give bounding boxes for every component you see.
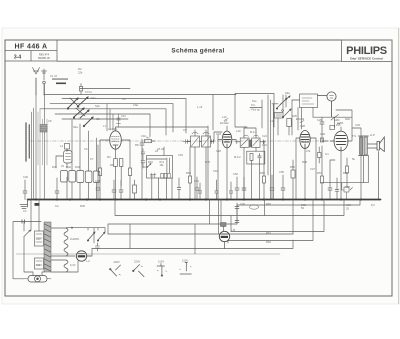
svg-text:C29: C29 [317, 118, 322, 122]
svg-text:S1a: S1a [91, 96, 96, 100]
resistor R7 [128, 168, 131, 176]
capacitor C46 [112, 180, 116, 200]
wire V2 leads [218, 126, 236, 200]
capacitor C14a [150, 173, 153, 178]
svg-text:0,1: 0,1 [325, 152, 329, 156]
capacitor C45 [96, 145, 100, 200]
switch S-volt 2 [97, 232, 105, 241]
capacitor C57 [335, 178, 339, 200]
label V3 [300, 121, 304, 123]
wire return 1 [237, 200, 360, 225]
svg-text:L.B: L.B [231, 228, 235, 232]
capacitor C56 [281, 175, 285, 200]
resistor R50 [189, 147, 192, 200]
svg-text:8,2: 8,2 [371, 203, 375, 207]
switch icon S2 [133, 265, 144, 277]
svg-text:R6: R6 [110, 163, 114, 167]
wire voltage selector [88, 228, 105, 256]
svg-text:C56: C56 [279, 170, 284, 174]
capacitor C11 stack [117, 114, 121, 127]
tube V1 UCH42 [110, 131, 122, 149]
text pick-up note [248, 99, 261, 111]
svg-text:C18: C18 [216, 149, 221, 153]
wire return 6 [92, 240, 293, 249]
svg-text:R8: R8 [135, 143, 139, 147]
svg-text:110V: 110V [158, 259, 164, 263]
label V4 [337, 123, 341, 125]
capacitor C21 lead [260, 140, 266, 144]
coupling core [249, 140, 252, 148]
svg-text:R56: R56 [290, 165, 295, 169]
capacitor C17 [211, 140, 214, 144]
resistor R6b [120, 159, 123, 167]
coil can L4 [64, 151, 73, 164]
wire AVC leads [252, 161, 260, 200]
schematic frame [5, 40, 392, 296]
tiny value labels [23, 67, 375, 267]
band switch S-a cluster [67, 97, 93, 127]
capacitor C50 [177, 178, 181, 200]
coil can L5 [61, 171, 68, 183]
svg-text:C6: C6 [84, 147, 88, 151]
svg-text:C33: C33 [355, 123, 360, 127]
svg-text:2x300V: 2x300V [70, 237, 79, 241]
ballast lamp L2 [76, 251, 92, 261]
svg-text:R32: R32 [345, 117, 350, 121]
coil can L6 [69, 120, 76, 200]
resistor R3 [65, 144, 70, 152]
svg-text:C9a: C9a [133, 103, 138, 107]
wire left verticals comb [32, 78, 45, 200]
wire T2 leads [352, 128, 377, 200]
svg-text:C3 1n: C3 1n [85, 90, 93, 94]
antenna A1 [33, 68, 40, 96]
svg-text:C66: C66 [346, 203, 351, 207]
svg-text:C11: C11 [121, 114, 126, 118]
svg-text:L5: L5 [61, 164, 64, 168]
transformer LT secondary [64, 260, 68, 272]
magic eye lamp L3 [318, 92, 337, 117]
capacitor C64 [229, 182, 232, 200]
svg-text:L7: L7 [103, 124, 106, 128]
switch arrow S2b [147, 164, 151, 168]
capacitor C61 [235, 217, 239, 223]
tube V2 ECH42 [222, 131, 232, 148]
svg-text:R54: R54 [260, 171, 265, 175]
chassis dashed line [30, 140, 335, 142]
capacitor C30 [320, 117, 324, 131]
wire IF1 leads [244, 128, 256, 200]
svg-text:L.13: L.13 [197, 105, 203, 109]
coil L12 osc [275, 113, 284, 119]
svg-text:M.F.2: M.F.2 [234, 155, 241, 159]
capacitor C62 [198, 183, 201, 200]
wire V3 leads [296, 138, 316, 200]
node junction J3 [313, 115, 352, 128]
svg-text:C60: C60 [240, 202, 245, 206]
svg-text:R10: R10 [148, 160, 153, 164]
wire return faint [16, 253, 280, 255]
wire return 5 [292, 200, 294, 235]
wire heater drops [130, 200, 265, 255]
svg-text:L.2: L.2 [86, 259, 90, 263]
svg-text:R41: R41 [52, 165, 57, 169]
wire osc internals [147, 147, 170, 173]
svg-text:C57: C57 [345, 185, 350, 189]
wire return 4 [228, 200, 313, 244]
wire osc loop box [235, 94, 274, 128]
svg-text:6,3V: 6,3V [70, 263, 76, 267]
svg-text:Schéma général: Schéma général [171, 48, 224, 55]
svg-text:ECH42: ECH42 [220, 121, 229, 125]
svg-text:C30: C30 [320, 132, 325, 136]
wire header rule [57, 60, 342, 62]
svg-text:EL41: EL41 [337, 121, 344, 125]
svg-text:R43: R43 [75, 165, 80, 169]
svg-text:C18: C18 [216, 132, 221, 136]
capacitor C51 [195, 177, 199, 200]
svg-text:S3a: S3a [285, 91, 290, 95]
resistor R54 [263, 141, 266, 200]
svg-text:C40: C40 [23, 175, 28, 179]
resistor R28 [318, 153, 322, 158]
pick-up box [300, 94, 318, 108]
wire to bus [100, 167, 130, 200]
svg-text:Pos.: Pos. [252, 99, 257, 103]
earth terminal E1 [42, 69, 47, 95]
AVC block box [247, 151, 265, 164]
capacitor C53 [242, 177, 246, 200]
band switch S-d cluster [276, 96, 291, 118]
svg-text:220V: 220V [134, 260, 140, 264]
transformer primary winding [35, 231, 44, 246]
wire osc box leads [152, 178, 172, 200]
svg-text:L4: L4 [60, 144, 63, 148]
switch icon S3 [157, 264, 167, 277]
switch S-volt 1 [87, 232, 95, 241]
resistor R2 top [79, 84, 82, 95]
svg-text:110V: 110V [182, 259, 188, 263]
coil L1 aerial [40, 125, 47, 133]
coil can L7c [85, 131, 92, 200]
svg-text:UCH42: UCH42 [108, 127, 117, 131]
svg-text:R60: R60 [266, 202, 271, 206]
svg-text:M.F.1: M.F.1 [250, 130, 257, 134]
tuning gang CV1 [186, 133, 202, 148]
resistor R56 [291, 160, 295, 200]
switch icon S4 [180, 262, 192, 274]
resistor R9 [145, 140, 156, 143]
wire V1 leads [100, 127, 208, 168]
power transformer T3 core [44, 222, 51, 272]
resistor R20 [250, 154, 253, 161]
svg-text:C51: C51 [194, 179, 199, 183]
svg-text:R28: R28 [302, 160, 307, 164]
label oval [250, 205, 259, 209]
svg-text:220: 220 [36, 237, 41, 241]
svg-text:C15: C15 [178, 153, 183, 157]
ground bus [28, 199, 381, 201]
switch S-mains [24, 222, 31, 237]
wire osc section [250, 95, 292, 200]
resistor R47 [133, 180, 137, 200]
resistor R59 [346, 158, 349, 187]
wire coupling [322, 131, 328, 141]
loudspeaker LS [377, 137, 384, 200]
resistor R33 [330, 126, 334, 130]
label antenna-earth [52, 79, 68, 85]
svg-text:CV: CV [183, 128, 187, 132]
svg-text:L12: L12 [270, 119, 275, 123]
svg-text:T.S.: T.S. [352, 134, 357, 138]
switch icon S1 [110, 265, 121, 276]
wire gang leads [195, 130, 222, 200]
wire mains top [13, 222, 41, 279]
svg-text:R48: R48 [143, 165, 148, 169]
capacitor C-f1 [95, 246, 99, 251]
svg-text:L8 L9: L8 L9 [157, 147, 164, 151]
svg-text:C21: C21 [262, 143, 267, 147]
svg-text:R59: R59 [343, 171, 348, 175]
svg-text:C1 47: C1 47 [50, 74, 58, 78]
svg-text:C19: C19 [213, 169, 218, 173]
svg-text:PHILIPS: PHILIPS [346, 45, 387, 57]
svg-text:25: 25 [346, 207, 349, 211]
svg-text:C45: C45 [95, 179, 100, 183]
wire return 3 [231, 200, 324, 232]
svg-text:P.U.: P.U. [251, 103, 256, 107]
svg-text:C7: C7 [90, 157, 94, 161]
label V2 [224, 119, 228, 122]
output transformer T2 [359, 136, 369, 156]
transformer HT secondary [64, 228, 68, 256]
IF transformer T1 secondary [252, 135, 260, 147]
svg-text:R57: R57 [317, 171, 322, 175]
capacitor C60 [235, 203, 239, 215]
svg-text:C5: C5 [48, 119, 52, 123]
capacitor C58 [328, 160, 335, 200]
svg-text:H.P.: H.P. [370, 133, 375, 137]
svg-text:22k: 22k [78, 71, 83, 75]
capacitor C10 [140, 139, 144, 200]
capacitor C14b [154, 173, 156, 178]
svg-text:R61: R61 [266, 231, 271, 235]
wire return 2 [115, 200, 344, 232]
IF transformer T1 primary [240, 135, 249, 147]
svg-text:R42: R42 [66, 165, 71, 169]
svg-text:R25: R25 [292, 114, 297, 118]
svg-text:S1b: S1b [95, 104, 100, 108]
ground tag left [20, 200, 40, 209]
resistor R6 [114, 159, 118, 167]
svg-text:S2a: S2a [73, 125, 78, 129]
wire heater line 2 [108, 233, 293, 235]
svg-text:Ch: Ch [23, 209, 27, 213]
wire bundle drops to V1 [107, 104, 113, 131]
tube V4 EL41 [334, 131, 348, 151]
tone cap C39 [342, 183, 353, 200]
capacitor C22 [258, 154, 261, 165]
svg-text:R2: R2 [78, 67, 82, 71]
resistor R57 [321, 146, 324, 200]
wire secondary leads [51, 228, 105, 272]
wire PU leads [292, 100, 313, 130]
svg-text:220V: 220V [114, 260, 120, 264]
capacitor C55 [270, 175, 274, 200]
wire transformer feeds [24, 200, 44, 276]
wire heater line 1 [108, 224, 237, 234]
resistor R25 [287, 119, 292, 127]
trimmer boxes [161, 173, 170, 178]
tube V3 EAF42 [300, 131, 310, 149]
svg-text:BF/RB.JD: BF/RB.JD [38, 56, 50, 60]
svg-text:R4: R4 [107, 155, 111, 159]
svg-text:47k: 47k [306, 149, 311, 153]
label block R12 [160, 161, 165, 167]
svg-text:110: 110 [36, 263, 41, 267]
vertical legend text bar [26, 123, 29, 161]
capacitor C41 [55, 178, 59, 200]
wire bundle RF nested horizontals [80, 88, 130, 90]
svg-text:R50: R50 [186, 171, 191, 175]
svg-text:R15: R15 [205, 160, 210, 164]
resistor R5 [99, 168, 102, 176]
wire V4 leads [330, 110, 352, 200]
svg-text:Dép' SERVICE Central: Dép' SERVICE Central [350, 56, 383, 60]
svg-text:C8: C8 [96, 117, 100, 121]
wire coil links [56, 149, 67, 200]
capacitor C-mains [22, 220, 25, 223]
capacitor C40 [23, 180, 27, 200]
capacitor C47 [119, 180, 123, 200]
svg-text:HF 446 A: HF 446 A [15, 43, 48, 50]
capacitor C52 [235, 177, 239, 200]
svg-text:C52: C52 [233, 172, 238, 176]
wire V3V4 couple [318, 147, 320, 163]
svg-text:50: 50 [301, 206, 304, 210]
coil can L7d [93, 138, 100, 200]
svg-text:C27: C27 [310, 167, 315, 171]
svg-text:L13: L13 [222, 115, 227, 119]
svg-text:C4: C4 [55, 204, 59, 208]
svg-text:C28: C28 [300, 124, 305, 128]
transformer primary winding 2 [35, 258, 44, 269]
PHILIPS service box [342, 40, 393, 62]
svg-text:R40: R40 [80, 204, 85, 208]
svg-text:L10: L10 [236, 129, 241, 133]
wire T2 return [321, 156, 369, 183]
oscillator block box [147, 156, 173, 179]
svg-text:EAF42: EAF42 [296, 117, 305, 121]
svg-text:R62: R62 [266, 240, 271, 244]
capacitor C20 lead [236, 140, 241, 144]
svg-text:→ Pick-up: → Pick-up [248, 107, 261, 111]
junction dot [71, 227, 73, 229]
wire osc verticals [208, 95, 218, 200]
capacitor C16 [183, 140, 191, 144]
resistor R31 [320, 138, 323, 142]
tuning gang CV2 [202, 133, 215, 148]
svg-text:4n7: 4n7 [146, 136, 151, 140]
bus junctions [35, 198, 362, 200]
svg-text:C9: C9 [122, 97, 126, 101]
capacitor C13 stack [141, 149, 145, 169]
mains plug P1 [24, 276, 51, 283]
fuse holder box [221, 223, 227, 232]
capacitor C63 [215, 180, 218, 200]
title block [5, 40, 57, 61]
svg-text:C21: C21 [262, 134, 267, 138]
pilot lamp LB [219, 231, 229, 248]
svg-text:3-4: 3-4 [14, 55, 21, 61]
coil can L7b [77, 124, 84, 200]
